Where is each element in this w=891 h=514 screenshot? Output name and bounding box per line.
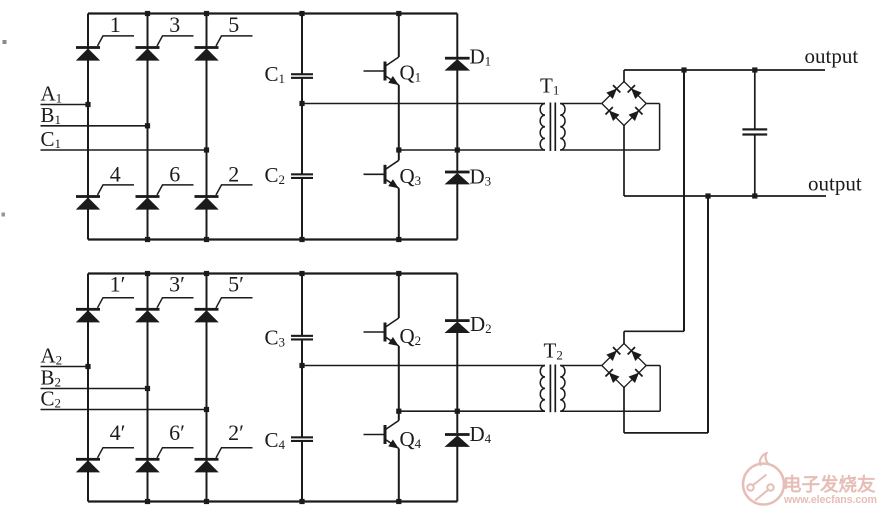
rectifier bridge 2 diode (bottom-to-right) — [624, 366, 646, 388]
svg-text:www.elecfans.com: www.elecfans.com — [783, 494, 877, 506]
wire: T2 secondary bottom — [560, 410, 660, 412]
wire: capacitor leg lower (section 2) — [301, 442, 303, 502]
rectifier bridge 2 diode (bottom-to-left) — [602, 366, 624, 388]
wire: bridge 2 negative corner drop — [623, 388, 625, 433]
transformer T2 core — [550, 365, 555, 413]
wire: capacitor leg upper (section 2) — [301, 274, 303, 336]
label D2 — [470, 312, 492, 336]
label C1 — [41, 127, 62, 151]
thyristor 5' — [195, 298, 253, 322]
transistor Q2 — [364, 318, 399, 346]
thyristor 5 — [195, 36, 253, 60]
junction at switch midpoint (Q leg, section 1) — [396, 147, 401, 152]
thyristor 2' — [195, 448, 253, 472]
junction on bottom bus at transistor leg — [396, 237, 401, 242]
junction at switch midpoint (D leg, section 1) — [455, 147, 460, 152]
label 2' — [228, 420, 244, 445]
wire: T1 secondary top to bridge left corner — [560, 103, 602, 105]
wire: phase leg 2 vertical (section 1) — [147, 14, 149, 240]
wire: capacitor midpoint to T1 primary top — [302, 103, 545, 105]
wire: bridge 1 positive corner riser — [623, 70, 625, 82]
wire: bridge 1 negative corner drop — [623, 126, 625, 197]
diode D1 — [445, 57, 470, 70]
node C1 junction — [204, 147, 209, 152]
label 2 — [228, 162, 239, 187]
label 3' — [169, 271, 185, 296]
svg-text:3: 3 — [169, 12, 180, 37]
wire: Q3 collector to midpoint — [398, 150, 400, 160]
junction on top bus at transistor leg — [396, 11, 401, 16]
wire: D1 cathode to top bus — [456, 14, 458, 58]
label 3 — [169, 12, 180, 37]
wire: T1 secondary bottom — [560, 149, 659, 151]
wire: phase leg 1 vertical (section 1) — [87, 14, 89, 240]
label 5 — [228, 12, 239, 37]
watermark logo (decorative) — [743, 453, 784, 504]
wire: input C2 — [41, 409, 207, 411]
label D3 — [470, 165, 492, 189]
label output (negative) — [808, 171, 862, 195]
junction on bottom bus at phase leg C — [204, 237, 209, 242]
thyristor 4' — [76, 448, 134, 472]
label B1 — [41, 103, 62, 127]
wire: input B2 — [41, 388, 148, 390]
wire: vertical feed from negative rail to bridge 2 — [707, 196, 709, 433]
wire: D2 anode to midpoint 2 — [456, 332, 458, 411]
watermark text (decorative) — [783, 474, 877, 506]
wire: top DC bus (section 2) — [88, 272, 457, 274]
label 4 — [110, 162, 121, 187]
svg-text:1′: 1′ — [110, 271, 126, 296]
transistor Q4 — [364, 421, 399, 449]
rectifier bridge 1 diode (bottom-to-left) — [602, 104, 624, 126]
thyristor 6 — [136, 185, 194, 209]
junction on top bus at capacitor leg — [299, 11, 304, 16]
junction on top bus 2 at capacitor leg — [299, 271, 304, 276]
junction at capacitor midpoint (section 2) — [299, 363, 304, 368]
junction on top bus 2 at phase leg C — [204, 271, 209, 276]
wire: Q1 emitter to midpoint — [398, 85, 400, 150]
capacitor C1 — [291, 73, 313, 79]
label T2 — [544, 339, 563, 363]
stray mark (left edge, middle) — [2, 213, 6, 217]
transformer T2 primary winding — [540, 366, 545, 412]
wire: Q2 collector to top bus 2 — [398, 274, 400, 319]
label C1 (capacitor) — [265, 62, 286, 86]
wire: switch midpoint to T1 primary bottom — [399, 149, 545, 151]
label T1 — [540, 74, 559, 98]
label C2 (capacitor) — [265, 163, 286, 187]
junction at switch midpoint (D leg, section 2) — [455, 409, 460, 414]
junction on bottom bus 2 at phase leg B — [145, 499, 150, 504]
wire: D4 anode to bottom bus 2 — [456, 446, 458, 501]
label B2 — [41, 366, 62, 390]
junction on bottom bus at capacitor leg — [299, 237, 304, 242]
wire: switch midpoint 2 to T2 primary bottom — [399, 410, 545, 412]
label 6' — [169, 420, 185, 445]
node C2 junction — [204, 407, 209, 412]
wire: capacitor midpoint 2 to T2 primary top — [302, 365, 545, 367]
wire: D3 anode to bottom bus — [456, 184, 458, 240]
svg-text:5′: 5′ — [228, 271, 244, 296]
thyristor 3' — [136, 298, 194, 322]
wire: bridge 2 right corner jog vertical — [659, 366, 661, 412]
capacitor C3 — [291, 335, 313, 341]
label C3 (capacitor) — [265, 326, 286, 350]
wire: Q4 collector to midpoint 2 — [398, 411, 400, 420]
junction on top bus 2 at phase leg B — [145, 271, 150, 276]
wire: Q1 collector to top bus — [398, 14, 400, 58]
svg-text:6′: 6′ — [169, 420, 185, 445]
rectifier bridge 2 diode (left-to-top) — [602, 344, 624, 366]
thyristor 3 — [136, 36, 194, 60]
transformer T1 primary winding — [540, 104, 545, 151]
transformer T1 secondary winding — [560, 104, 565, 151]
label C4 (capacitor) — [265, 428, 286, 452]
node A1 junction — [85, 102, 90, 107]
junction positive rail to section-2 feed — [681, 67, 686, 72]
wire: input B1 — [41, 125, 148, 127]
capacitor C2 — [291, 173, 313, 179]
junction negative rail at filter capacitor — [752, 193, 757, 198]
wire: capacitor leg lower (section 1) — [301, 179, 303, 240]
capacitor C4 — [291, 436, 313, 442]
svg-text:1: 1 — [110, 12, 121, 37]
wire: input C1 — [41, 149, 207, 151]
wire: capacitor leg upper (section 1) — [301, 14, 303, 74]
wire: filter capacitor upper lead — [754, 70, 756, 129]
junction on bottom bus 2 at phase leg C — [204, 499, 209, 504]
wire: phase leg 3 vertical (section 1) — [206, 14, 208, 240]
label Q4 — [400, 427, 422, 451]
label 1 — [110, 12, 121, 37]
thyristor 1' — [76, 298, 134, 322]
wire: capacitor leg middle (section 2) — [301, 340, 303, 436]
label 5' — [228, 271, 244, 296]
junction negative rail to section-2 feed — [705, 193, 710, 198]
wire: input A2 — [41, 366, 89, 368]
junction on top bus at phase leg C — [204, 11, 209, 16]
transformer T1 core — [550, 103, 555, 152]
diode D3 — [445, 171, 470, 184]
stray mark (left edge, top) — [3, 40, 7, 44]
svg-text:4′: 4′ — [110, 420, 126, 445]
svg-text:output: output — [808, 171, 862, 195]
wire: bridge 1 right corner jog horizontal — [646, 103, 659, 105]
label C2 — [41, 387, 62, 411]
thyristor 6' — [136, 448, 194, 472]
label A2 — [41, 344, 63, 368]
wire: top DC bus (section 1) — [88, 12, 457, 14]
rectifier bridge 1 diode (bottom-to-right) — [624, 104, 646, 126]
junction on bottom bus 2 at transistor leg — [396, 499, 401, 504]
label D1 — [470, 45, 492, 69]
label D4 — [470, 422, 492, 446]
rectifier bridge 2 diode (right-to-top) — [624, 344, 646, 366]
label Q2 — [400, 324, 422, 348]
label Q3 — [400, 164, 422, 188]
thyristor 2 — [195, 185, 253, 209]
capacitor (output filter) — [742, 128, 767, 135]
wire: bridge 1 right corner jog vertical — [659, 104, 661, 151]
wire: positive output rail — [624, 69, 825, 71]
label 6 — [169, 162, 180, 187]
wire: bridge 2 negative corner to vertical feed — [624, 432, 708, 434]
diode D4 — [445, 433, 470, 446]
label A1 — [41, 82, 63, 106]
junction at switch midpoint (Q leg, section 2) — [396, 409, 401, 414]
wire: D1 anode to midpoint — [456, 70, 458, 150]
wire: negative output rail — [624, 195, 826, 197]
svg-text:5: 5 — [228, 12, 239, 37]
svg-text:2′: 2′ — [228, 420, 244, 445]
thyristor 4 — [76, 185, 134, 209]
diode D2 — [445, 319, 470, 332]
svg-text:2: 2 — [228, 162, 239, 187]
wire: bridge 2 right corner jog horizontal — [646, 365, 660, 367]
wire: input A1 — [41, 104, 89, 106]
svg-text:output: output — [805, 44, 859, 68]
svg-text:6: 6 — [169, 162, 180, 187]
wire: bottom DC bus (section 2) — [88, 500, 457, 502]
wire: bottom DC bus (section 1) — [88, 238, 457, 240]
transistor Q1 — [364, 57, 399, 85]
junction positive rail at filter capacitor — [752, 67, 757, 72]
label Q1 — [400, 61, 422, 85]
wire: Q2 emitter to midpoint 2 — [398, 346, 400, 411]
wire: bridge 2 positive corner riser — [623, 331, 625, 343]
wire: filter capacitor lower lead — [754, 135, 756, 196]
node B2 junction — [145, 386, 150, 391]
wire: capacitor leg middle (section 1) — [301, 79, 303, 174]
wire: D3 cathode to midpoint — [456, 150, 458, 171]
junction on top bus 2 at transistor leg — [396, 271, 401, 276]
wire: phase leg 2 vertical (section 2) — [147, 274, 149, 502]
svg-text:4: 4 — [110, 162, 121, 187]
wire: Q4 emitter to bottom bus 2 — [398, 449, 400, 502]
junction on bottom bus at phase leg B — [145, 237, 150, 242]
node B1 junction — [145, 123, 150, 128]
label 4' — [110, 420, 126, 445]
label 1' — [110, 271, 126, 296]
svg-text:3′: 3′ — [169, 271, 185, 296]
wire: T2 secondary top to bridge 2 left corner — [560, 365, 602, 367]
thyristor 1 — [76, 36, 134, 60]
junction on top bus at phase leg B — [145, 11, 150, 16]
wire: vertical feed from positive rail to bridge 2 — [683, 70, 685, 331]
junction on bottom bus 2 at capacitor leg — [299, 499, 304, 504]
node A2 junction — [85, 364, 90, 369]
junction at capacitor midpoint (section 1) — [299, 101, 304, 106]
svg-text:电子发烧友: 电子发烧友 — [783, 474, 876, 495]
rectifier bridge 1 diode (right-to-top) — [624, 82, 646, 104]
transformer T2 secondary winding — [560, 366, 565, 412]
rectifier bridge 1 diode (left-to-top) — [602, 82, 624, 104]
wire: D4 cathode to midpoint 2 — [456, 411, 458, 433]
wire: phase leg 1 vertical (section 2) — [87, 274, 89, 502]
wire: D2 cathode to top bus 2 — [456, 274, 458, 320]
transistor Q3 — [364, 160, 399, 188]
label output (positive) — [805, 44, 859, 68]
wire: Q3 emitter to bottom bus — [398, 188, 400, 239]
wire: bridge 2 positive corner to vertical feed — [624, 330, 684, 332]
wire: phase leg 3 vertical (section 2) — [206, 274, 208, 502]
